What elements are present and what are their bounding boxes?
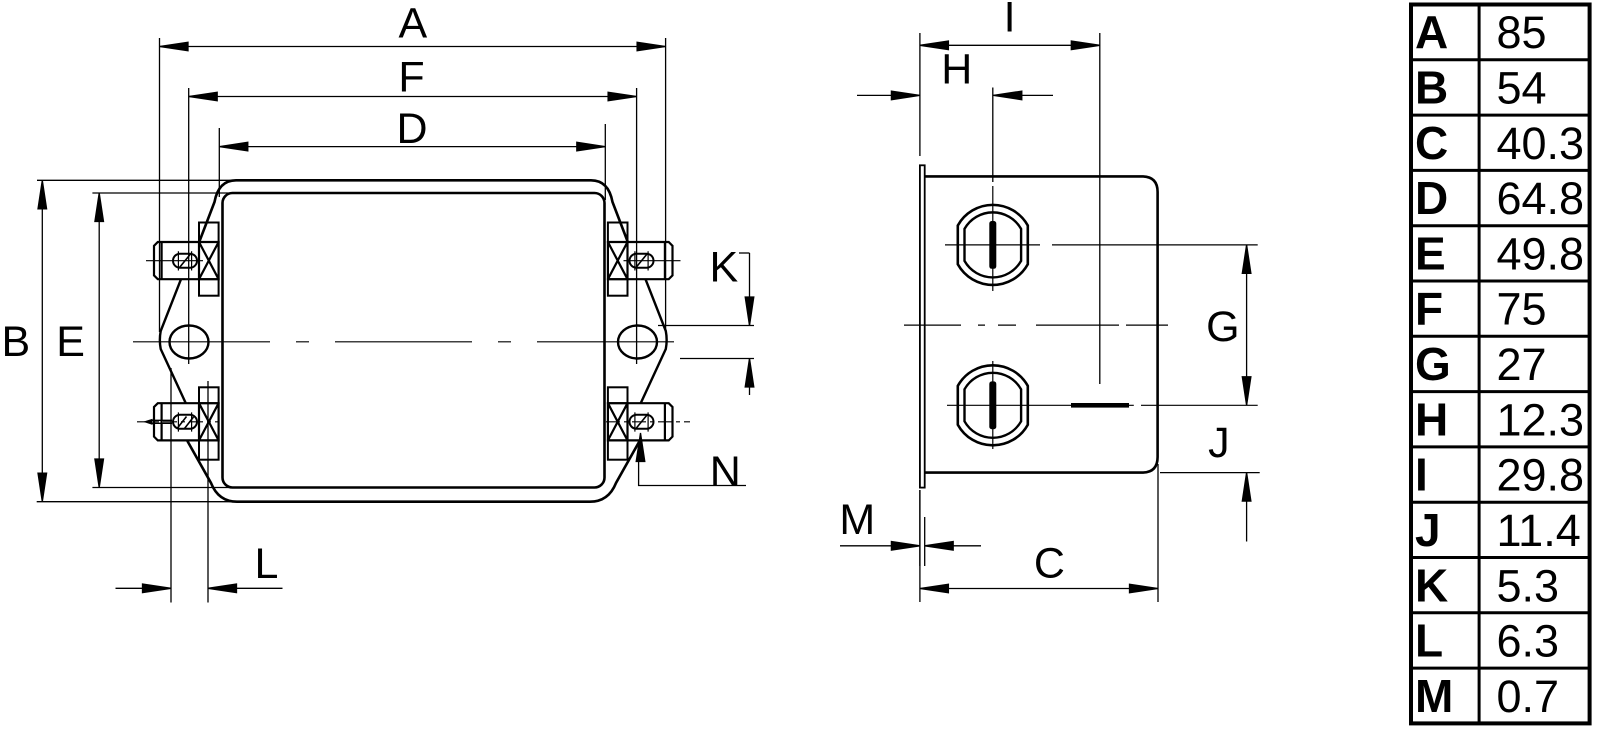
dimension H arrow left [891, 91, 920, 100]
svg-text:M: M [1415, 670, 1453, 722]
lower-right tab tick marks [635, 412, 648, 431]
dimension D arrow left [219, 142, 248, 151]
FRONT VIEW LABELS [1, 0, 740, 588]
svg-text:6.3: 6.3 [1497, 616, 1560, 667]
svg-text:I: I [1004, 0, 1016, 42]
svg-text:K: K [710, 244, 739, 292]
upper-right tab cap line [664, 242, 666, 279]
dimension F extension left [188, 88, 190, 364]
upper-left faston tab [154, 242, 199, 279]
svg-text:49.8: 49.8 [1497, 228, 1585, 279]
upper-right bracket step below [608, 279, 628, 296]
dimension M extension lines [920, 490, 925, 566]
svg-text:H: H [1415, 393, 1448, 445]
lower-left tab slot hatch [178, 417, 194, 429]
lower-left tab centerline [137, 421, 219, 423]
upper terminal vertical crosshair [992, 186, 994, 291]
upper-right bracket step above [608, 223, 628, 243]
dimension J extension bottom [1160, 472, 1260, 474]
dimension B arrow bottom [38, 473, 47, 502]
dimension I arrow left [920, 41, 949, 50]
lower terminal inner [965, 373, 1022, 438]
upper-left crimp X-box [199, 242, 219, 279]
svg-text:B: B [1, 318, 30, 366]
SIDE VIEW [904, 165, 1258, 487]
upper-left tab slot slash [180, 254, 191, 268]
dimension D extension left [218, 128, 220, 197]
mounting flange right outline [641, 279, 667, 403]
dimension C extension left [919, 490, 921, 602]
lower-right crimp X-box [608, 403, 628, 440]
lower-right bracket step below [608, 440, 628, 459]
upper terminal inner [965, 212, 1022, 277]
dimension B arrow top [38, 180, 47, 209]
dimension J arrow up [1242, 473, 1251, 542]
upper-left bracket step below [199, 279, 219, 296]
FRONT VIEW [133, 180, 690, 501]
lower terminal horizontal crosshair / G bottom extension [947, 404, 1258, 406]
dimension L extension right [207, 381, 209, 603]
svg-text:27: 27 [1497, 339, 1547, 390]
dimension F line [189, 96, 637, 98]
dimension K arrow down [745, 253, 754, 326]
svg-text:29.8: 29.8 [1497, 450, 1585, 501]
svg-text:A: A [398, 0, 427, 48]
dimension K leader [739, 252, 750, 254]
upper-right crimp X-box [608, 242, 628, 279]
dimension L arrow right [208, 584, 237, 593]
dimension L line right [208, 587, 283, 589]
svg-text:J: J [1208, 419, 1230, 467]
dimension E extension bottom [92, 487, 240, 489]
dimension L arrow left [143, 584, 172, 593]
svg-text:64.8: 64.8 [1497, 173, 1585, 224]
flange hole right [618, 326, 657, 359]
svg-text:J: J [1415, 504, 1441, 556]
dimension B extension bottom [37, 501, 240, 503]
SIDE VIEW DIMENSIONS [840, 33, 1260, 602]
svg-text:L: L [1415, 615, 1443, 667]
dimension C extension right [1157, 464, 1159, 602]
SIDE VIEW LABELS [839, 0, 1239, 588]
svg-text:B: B [1415, 62, 1448, 114]
dimension G arrow bottom [1242, 377, 1251, 406]
lower terminal outer [958, 365, 1028, 445]
lower-right tab slot oval [630, 415, 654, 429]
svg-text:C: C [1034, 540, 1065, 588]
svg-text:G: G [1415, 338, 1451, 390]
dimension E extension top [92, 192, 240, 194]
dimension G line [1246, 245, 1248, 405]
upper-left bracket step above [199, 223, 219, 243]
svg-text:H: H [941, 46, 972, 94]
table letter column [1415, 6, 1453, 722]
svg-text:E: E [1415, 227, 1446, 279]
dimension N arrow [636, 433, 645, 462]
dimension E line [98, 193, 100, 488]
dimension K extension bottom [680, 358, 754, 360]
dimension H line right [993, 94, 1053, 96]
svg-text:N: N [710, 448, 741, 496]
dimension L line left [116, 587, 172, 589]
dimension C arrow left [920, 584, 949, 593]
dimension H extension [992, 88, 994, 183]
dimension B line [41, 180, 43, 501]
svg-text:54: 54 [1497, 63, 1547, 114]
dimension M arrow right [925, 542, 954, 551]
dimension H arrow right [993, 91, 1022, 100]
dimension C arrow right [1130, 584, 1159, 593]
dimension I extension right [1099, 33, 1101, 384]
svg-text:I: I [1415, 449, 1428, 501]
upper terminal outer [958, 205, 1028, 285]
lower-left bracket step below [199, 440, 219, 459]
svg-text:40.3: 40.3 [1497, 118, 1585, 169]
table row dividers [1411, 60, 1590, 668]
dimension D arrow right [577, 142, 606, 151]
flange hole left [170, 326, 209, 359]
front view horizontal centerline [133, 341, 689, 343]
side body [925, 176, 1158, 472]
svg-text:85: 85 [1497, 7, 1547, 58]
upper-right tab tick marks [635, 251, 648, 270]
lower-left bracket step above [199, 387, 219, 403]
svg-text:K: K [1415, 559, 1448, 611]
dimension F arrow left [189, 92, 218, 101]
svg-text:M: M [839, 496, 875, 544]
svg-text:G: G [1206, 303, 1239, 351]
lower-left crimp X-box [199, 403, 219, 440]
dimension B extension top [37, 179, 240, 181]
lower-right tab centerline [606, 421, 690, 423]
table outer border [1411, 5, 1590, 724]
upper-right tab slot slash [636, 254, 647, 268]
upper terminal horizontal crosshair / G top extension [945, 244, 1258, 246]
upper terminal slot [989, 221, 996, 269]
upper-left tab tick marks [178, 251, 191, 270]
body inner case front [223, 193, 605, 488]
dimension E arrow top [95, 193, 104, 222]
dimension D extension right [604, 124, 606, 200]
lower-right tab cap line [664, 403, 666, 440]
dimension N leader [639, 459, 746, 486]
mounting flange left outline [160, 279, 186, 403]
svg-text:F: F [398, 54, 424, 102]
dimension I extension left [919, 33, 921, 156]
svg-text:12.3: 12.3 [1497, 394, 1585, 445]
upper-right faston tab [628, 242, 673, 279]
TABLE [1411, 5, 1590, 724]
dimension L extension left [170, 368, 172, 603]
lower terminal vertical crosshair [992, 361, 994, 449]
upper-left tab centerline [146, 260, 203, 262]
lower-left tab cap line [161, 403, 163, 440]
dimension K extension top [658, 325, 754, 327]
dimension I line [920, 44, 1100, 46]
lower terminal slot [989, 381, 996, 429]
upper-right tab slot oval [630, 254, 654, 268]
lower-left tab slot oval [173, 415, 197, 429]
dimension D line [219, 146, 605, 148]
body outer shell top [199, 180, 628, 242]
lower-left faston tab [154, 403, 199, 440]
upper-right tab centerline [624, 260, 681, 262]
svg-text:D: D [1415, 172, 1448, 224]
svg-text:0.7: 0.7 [1497, 671, 1560, 722]
svg-text:11.4: 11.4 [1497, 505, 1581, 556]
lower-right tab slot slash [636, 415, 647, 429]
dimension F arrow right [608, 92, 637, 101]
svg-text:C: C [1415, 117, 1448, 169]
svg-text:F: F [1415, 283, 1443, 335]
dimension F extension right [636, 88, 638, 364]
dimension A line [160, 46, 666, 48]
dimension M line left [840, 545, 920, 547]
dimension A extension right [665, 38, 667, 332]
dimension A arrow left [160, 42, 189, 51]
dimension G arrow top [1242, 245, 1251, 274]
svg-text:75: 75 [1497, 284, 1547, 335]
lower-right bracket step above [608, 387, 628, 403]
FRONT VIEW DIMENSIONS [37, 38, 754, 603]
lower-right faston tab [628, 403, 673, 440]
svg-text:L: L [255, 540, 279, 588]
dimension I arrow right [1071, 41, 1100, 50]
dimension K arrow up [745, 359, 754, 396]
lower-left solder pin shaft [152, 420, 172, 423]
table value column [1497, 7, 1585, 722]
far-side terminal edge bar [1071, 403, 1129, 408]
dimension H line left [857, 94, 920, 96]
dimension A extension left [159, 38, 161, 332]
dimension A arrow right [637, 42, 666, 51]
dimension E arrow bottom [95, 459, 104, 488]
lower-left solder pin [143, 419, 153, 425]
svg-text:E: E [56, 318, 85, 366]
upper-left tab slot oval [173, 254, 197, 268]
table column divider [1478, 5, 1481, 724]
lower-left tab tick marks [178, 412, 191, 431]
side flange plate [920, 165, 925, 487]
dimension M line right [925, 545, 981, 547]
dimension C line [920, 588, 1158, 590]
body outer shell bottom [187, 441, 639, 502]
upper-left tab cap line [161, 242, 163, 279]
side view horizontal centerline [904, 324, 1168, 326]
dimension M arrow left [891, 542, 920, 551]
svg-text:A: A [1415, 6, 1448, 58]
svg-text:D: D [396, 105, 427, 153]
svg-text:5.3: 5.3 [1497, 560, 1560, 611]
